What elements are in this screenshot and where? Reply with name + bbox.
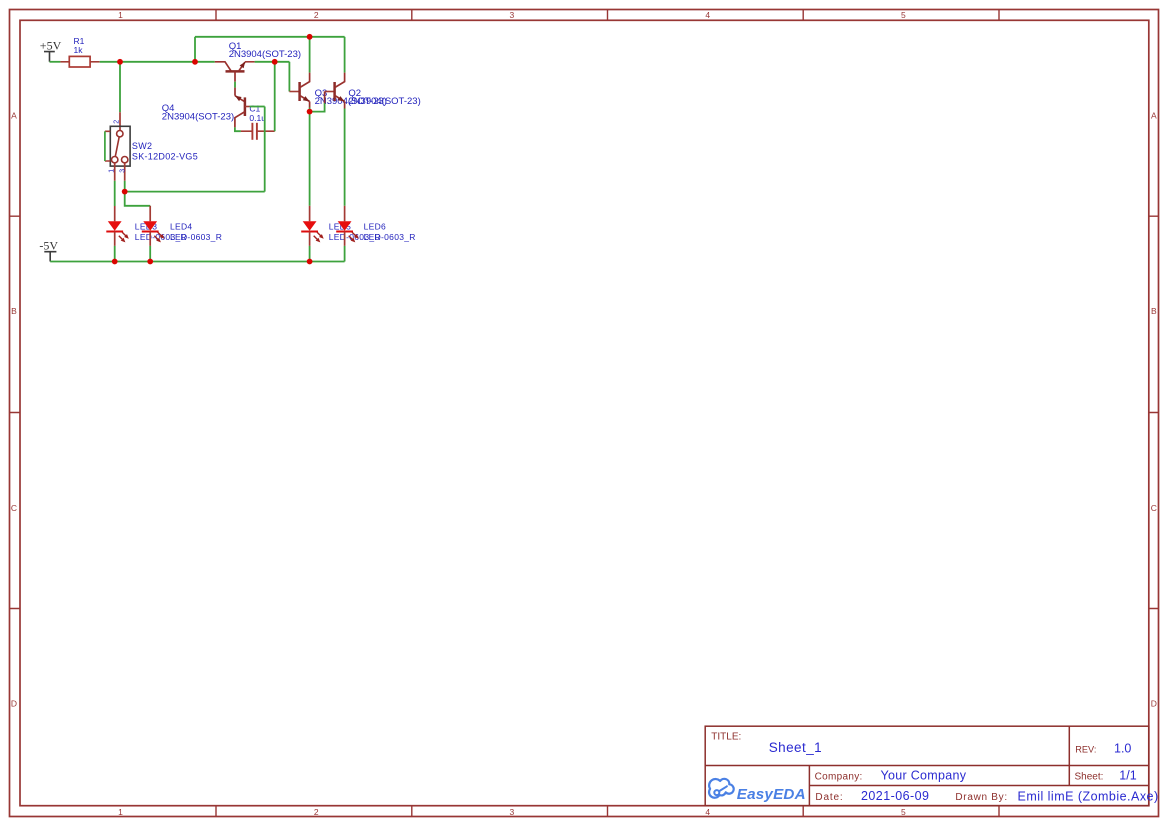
svg-text:1: 1 bbox=[109, 169, 116, 173]
svg-text:-5V: -5V bbox=[39, 238, 58, 252]
svg-text:2N3904(SOT-23): 2N3904(SOT-23) bbox=[229, 49, 301, 60]
junction bbox=[307, 34, 313, 40]
svg-text:3: 3 bbox=[120, 169, 127, 173]
wire junction down to SW2 pin 2 bbox=[119, 62, 121, 112]
svg-text:3: 3 bbox=[510, 10, 515, 20]
wire SW2 pin1 down bbox=[114, 181, 116, 206]
LED4 bbox=[142, 206, 165, 246]
svg-text:B: B bbox=[1151, 306, 1157, 316]
svg-text:B: B bbox=[11, 306, 17, 316]
svg-text:1: 1 bbox=[118, 807, 123, 817]
svg-text:2: 2 bbox=[314, 807, 319, 817]
transistor Q3 bbox=[289, 73, 309, 108]
junction bbox=[147, 259, 153, 265]
svg-text:SW2: SW2 bbox=[132, 141, 152, 151]
svg-text:C: C bbox=[11, 503, 17, 513]
svg-text:1k: 1k bbox=[74, 45, 84, 55]
ruler ticks left bbox=[10, 216, 21, 608]
title block frame bbox=[705, 726, 1149, 806]
svg-text:LED6: LED6 bbox=[364, 222, 386, 232]
svg-text:2N3904(SOT-23): 2N3904(SOT-23) bbox=[348, 96, 420, 107]
wire up from junction bbox=[194, 37, 196, 62]
svg-text:Date:: Date: bbox=[815, 792, 843, 803]
svg-text:1.0: 1.0 bbox=[1114, 742, 1131, 756]
svg-text:Sheet_1: Sheet_1 bbox=[769, 740, 822, 755]
svg-text:Drawn By:: Drawn By: bbox=[955, 792, 1007, 803]
wire Q4 collector to C1 bbox=[235, 127, 241, 131]
svg-text:0.1u: 0.1u bbox=[249, 113, 266, 123]
svg-text:1: 1 bbox=[118, 10, 123, 20]
svg-text:LED-0603_R: LED-0603_R bbox=[364, 232, 416, 242]
wire top rail bbox=[195, 36, 345, 38]
junction bbox=[272, 59, 278, 65]
junction bbox=[307, 259, 313, 265]
svg-text:SK-12D02-VG5: SK-12D02-VG5 bbox=[132, 151, 198, 161]
svg-text:Emil limE (Zombie.Axe): Emil limE (Zombie.Axe) bbox=[1018, 789, 1159, 803]
power flag -5V bbox=[39, 238, 58, 261]
transistor Q1 bbox=[215, 62, 255, 82]
resistor R1 bbox=[60, 56, 99, 67]
LED6 bbox=[336, 206, 359, 246]
wire LED3 cathode to rail bbox=[114, 246, 116, 262]
svg-text:2021-06-09: 2021-06-09 bbox=[861, 789, 929, 803]
wire Q1 emitter east bbox=[255, 61, 290, 63]
svg-text:2: 2 bbox=[113, 120, 120, 124]
svg-text:3: 3 bbox=[510, 807, 515, 817]
ruler numbers bottom bbox=[118, 807, 906, 817]
svg-text:+5V: +5V bbox=[40, 39, 62, 53]
wire Q1 base to Q4 emitter bbox=[234, 82, 236, 88]
junction bbox=[192, 59, 198, 65]
wire corner down to Q3 base bbox=[288, 62, 290, 92]
svg-text:Your Company: Your Company bbox=[881, 769, 967, 783]
svg-text:EasyEDA: EasyEDA bbox=[737, 786, 806, 803]
LED5 bbox=[301, 206, 324, 246]
junction bbox=[117, 59, 123, 65]
EasyEDA logo cloud bbox=[709, 779, 734, 798]
wire top rail to Q3 collector bbox=[309, 37, 311, 73]
svg-text:2: 2 bbox=[314, 10, 319, 20]
junction bbox=[307, 109, 313, 115]
wire junction down to C1 right plate bbox=[274, 62, 276, 131]
ruler ticks top bbox=[216, 10, 999, 21]
wire top rail to Q2 collector bbox=[344, 37, 346, 73]
svg-text:4: 4 bbox=[705, 10, 710, 20]
junction bbox=[112, 259, 118, 265]
wire LED5 cathode to rail bbox=[309, 246, 311, 262]
LED3 bbox=[106, 206, 129, 246]
svg-text:D: D bbox=[11, 699, 17, 709]
svg-text:TITLE:: TITLE: bbox=[711, 732, 741, 743]
wire +5V to R1 bbox=[50, 61, 61, 63]
svg-text:1/1: 1/1 bbox=[1119, 769, 1136, 783]
svg-text:5: 5 bbox=[901, 10, 906, 20]
transistor Q4 bbox=[235, 88, 250, 128]
wire Q3 emitter to junction bbox=[309, 108, 311, 112]
wire main +5V rail bbox=[100, 61, 215, 63]
wire Q4 base stub bbox=[250, 106, 265, 108]
ruler numbers top bbox=[118, 10, 906, 20]
transistor Q2 bbox=[325, 73, 345, 109]
wire Q3 emitter junction down to LED5 bbox=[309, 112, 311, 206]
junction bbox=[122, 189, 128, 195]
svg-text:5: 5 bbox=[901, 807, 906, 817]
ruler letters right bbox=[1151, 111, 1157, 709]
wire LED4 cathode to rail bbox=[149, 246, 151, 262]
wire SW2 pin3 to junction bbox=[124, 181, 126, 192]
svg-text:REV:: REV: bbox=[1075, 745, 1096, 755]
capacitor C1 bbox=[241, 123, 275, 140]
wire junction elbow to LED4 bbox=[125, 192, 151, 206]
ruler ticks bottom bbox=[216, 806, 999, 817]
wire junction to Q2 base bbox=[310, 103, 325, 112]
svg-text:LED-0603_R: LED-0603_R bbox=[170, 232, 222, 242]
wire Q2 emitter down to LED6 bbox=[344, 109, 346, 206]
ruler letters left bbox=[11, 111, 17, 709]
wire LED6 cathode to rail bbox=[344, 246, 346, 262]
svg-text:2N3904(SOT-23): 2N3904(SOT-23) bbox=[162, 112, 234, 123]
power flag +5V bbox=[40, 39, 62, 62]
svg-text:A: A bbox=[11, 111, 17, 121]
wire Q4 base down long bbox=[264, 107, 266, 192]
svg-text:Sheet:: Sheet: bbox=[1075, 772, 1104, 783]
svg-text:C: C bbox=[1151, 503, 1157, 513]
svg-text:Company:: Company: bbox=[815, 772, 863, 783]
wire -5V bottom rail bbox=[50, 261, 344, 263]
svg-text:A: A bbox=[1151, 111, 1157, 121]
svg-text:D: D bbox=[1151, 699, 1157, 709]
svg-text:LED4: LED4 bbox=[170, 222, 192, 232]
ruler ticks right bbox=[1149, 216, 1159, 608]
wire junction to Q4 base net bbox=[125, 191, 265, 193]
switch SW2 bbox=[105, 112, 130, 181]
svg-text:4: 4 bbox=[705, 807, 710, 817]
